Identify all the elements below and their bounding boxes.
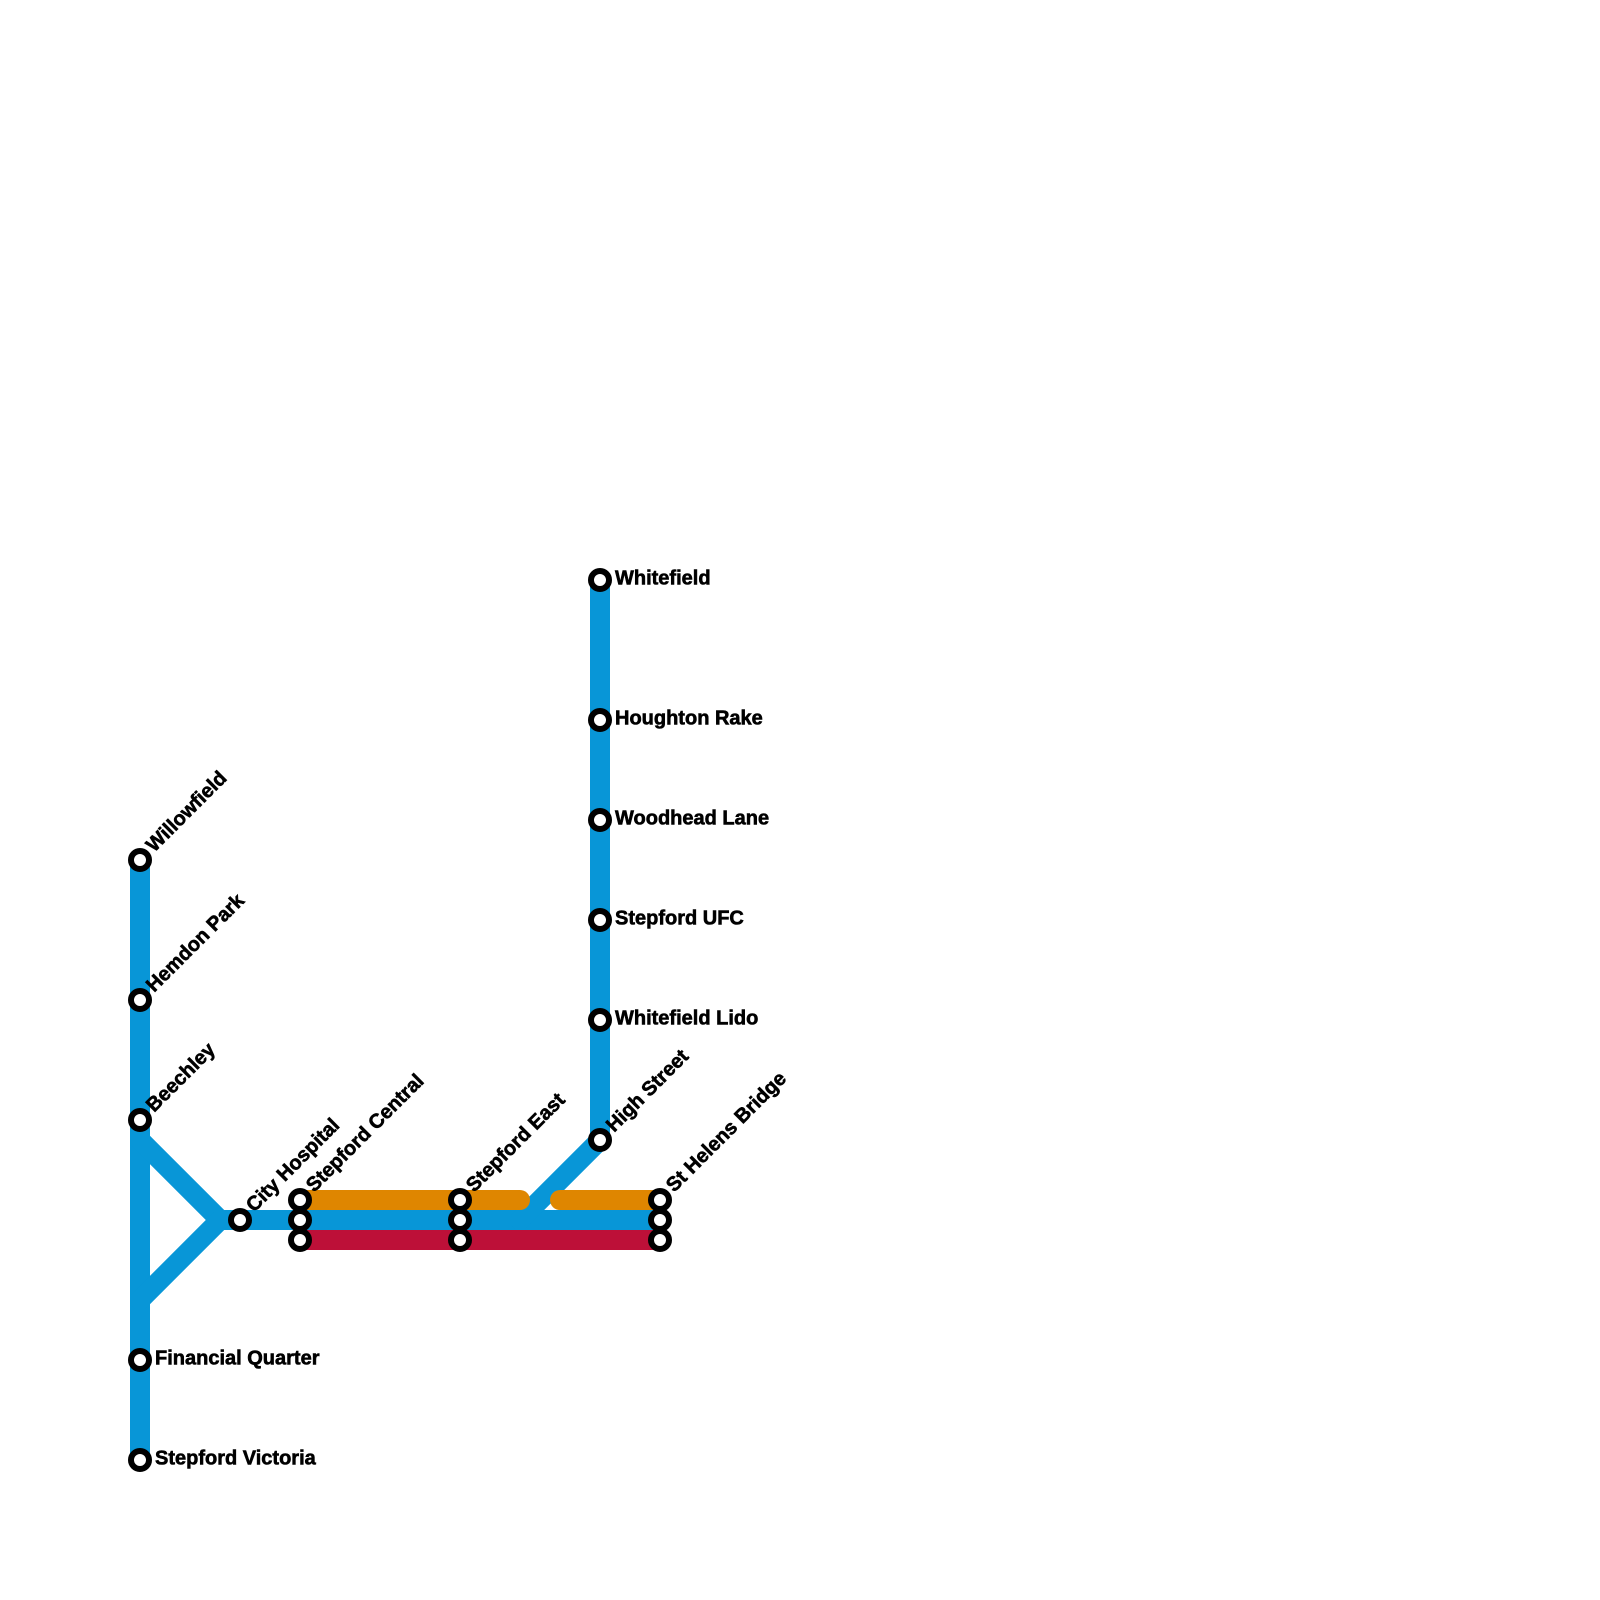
node Stepford East (orange) [451,1191,469,1209]
wire orange line west segment [300,1190,520,1210]
node City Hospital [231,1211,249,1229]
node Whitefield Lido [591,1011,609,1029]
node Woodhead Lane [591,811,609,829]
node High Street [591,1131,609,1149]
node Beechley [131,1111,149,1129]
node Stepford East (blue) [451,1211,469,1229]
svg-text:Houghton Rake: Houghton Rake [615,708,763,730]
wire blue line: Whitefield branch vertical + diagonal [520,580,600,1220]
node Whitefield [591,571,609,589]
node Houghton Rake [591,711,609,729]
svg-text:Financial Quarter: Financial Quarter [155,1348,320,1370]
svg-text:Woodhead Lane: Woodhead Lane [615,808,769,830]
node Stepford Central (orange) [291,1191,309,1209]
node Willowfield [131,851,149,869]
wire blue line: Beechley branch diagonal + horizontal to St Helens Bridge [140,1140,660,1220]
node Stepford Central (red) [291,1231,309,1249]
node Stepford Central (blue) [291,1211,309,1229]
wire orange line east segment [560,1190,660,1210]
node St Helens Bridge (blue) [651,1211,669,1229]
node Stepford East (red) [451,1231,469,1249]
wire red line [300,1230,660,1250]
svg-text:Stepford UFC: Stepford UFC [615,908,744,930]
node Financial Quarter [131,1351,149,1369]
svg-text:Whitefield: Whitefield [615,568,711,590]
node Stepford UFC [591,911,609,929]
svg-text:Stepford Victoria: Stepford Victoria [155,1448,317,1470]
node St Helens Bridge (orange) [651,1191,669,1209]
wire blue line: Willowfield-Stepford Victoria vertical [130,860,150,1460]
node St Helens Bridge (red) [651,1231,669,1249]
node Stepford Victoria [131,1451,149,1469]
wire blue line: lower triangle diagonal [140,1220,220,1300]
svg-text:Whitefield Lido: Whitefield Lido [615,1008,758,1030]
node Hemdon Park [131,991,149,1009]
